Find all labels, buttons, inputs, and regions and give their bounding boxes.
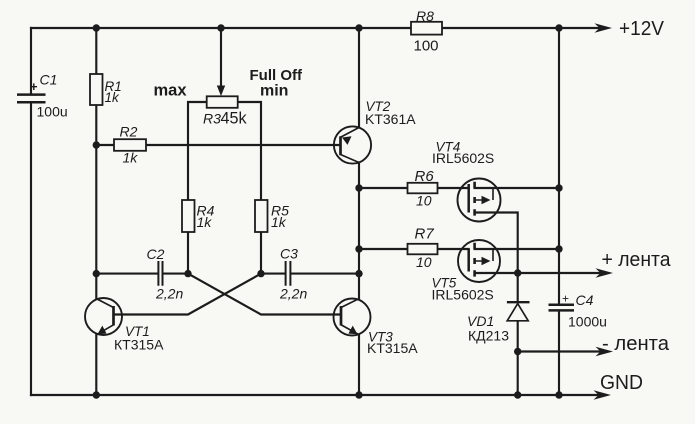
svg-text:C4: C4	[576, 292, 594, 308]
svg-text:min: min	[260, 83, 288, 100]
svg-text:KT315A: KT315A	[367, 340, 418, 356]
svg-text:1000u: 1000u	[568, 314, 607, 330]
svg-text:+ лента: + лента	[602, 249, 672, 271]
svg-text:C2: C2	[147, 246, 165, 262]
svg-text:10: 10	[416, 193, 432, 209]
svg-text:2,2n: 2,2n	[155, 286, 183, 302]
svg-text:- лента: - лента	[602, 333, 670, 355]
svg-text:+: +	[30, 79, 38, 94]
svg-text:100: 100	[414, 38, 439, 55]
svg-text:R2: R2	[120, 124, 138, 140]
svg-text:КТ315А: КТ315А	[114, 337, 164, 353]
svg-text:1k: 1k	[271, 214, 287, 230]
svg-text:+12V: +12V	[619, 18, 665, 40]
svg-text:C1: C1	[40, 72, 58, 88]
svg-text:R6: R6	[415, 168, 435, 185]
svg-text:IRL5602S: IRL5602S	[432, 287, 494, 303]
svg-text:Full Off: Full Off	[250, 67, 303, 84]
svg-text:1k: 1k	[197, 214, 213, 230]
svg-text:max: max	[154, 82, 188, 100]
svg-text:R7: R7	[415, 226, 435, 243]
svg-text:2,2n: 2,2n	[279, 286, 307, 302]
svg-text:+: +	[562, 292, 569, 306]
svg-text:100u: 100u	[37, 104, 68, 120]
svg-text:1k: 1k	[105, 90, 121, 105]
svg-text:KT361A: KT361A	[365, 111, 416, 127]
svg-text:1k: 1k	[123, 150, 139, 166]
svg-text:IRL5602S: IRL5602S	[432, 150, 494, 166]
svg-text:КД213: КД213	[468, 328, 509, 344]
svg-text:R3: R3	[203, 111, 221, 127]
svg-text:45k: 45k	[221, 110, 248, 128]
svg-text:R8: R8	[416, 8, 434, 24]
svg-text:GND: GND	[600, 372, 643, 394]
svg-text:C3: C3	[280, 246, 298, 262]
svg-text:10: 10	[416, 254, 432, 270]
